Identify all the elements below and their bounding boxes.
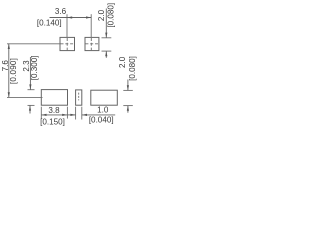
svg-text:2.0: 2.0 (118, 56, 127, 68)
dimension line A 7.6 left (8, 44, 10, 98)
centerline pad P2 horizontal (dashed) (85, 43, 98, 45)
centerline pad P1 vertical (dashed) (66, 38, 68, 50)
arrow 3.6 right (86, 16, 91, 18)
svg-text:[0.300]: [0.300] (30, 56, 39, 81)
svg-text:1.0: 1.0 (97, 106, 109, 115)
pad P3 (bottom-left wide land) (41, 90, 67, 106)
extension line pad P4 left down (75, 107, 77, 120)
dimension line B 2.3 upper segment (29, 57, 31, 90)
arrow 3.6 left (67, 16, 72, 18)
arrow 1.0 left (outside pointing right) (70, 114, 75, 116)
extension tick dim B top (28, 89, 35, 91)
arrow B up (outside below) (29, 105, 31, 110)
svg-text:[0.080]: [0.080] (128, 56, 137, 81)
arrow 2.0 down (105, 33, 107, 38)
arrow 1.0 right (outside pointing left) (82, 114, 87, 116)
extension tick dim B bottom (28, 104, 35, 106)
extension line left from pad P1 center (7, 43, 60, 45)
extension line right of pad P2 top (102, 37, 112, 39)
dimension line 3.8 bottom (41, 114, 67, 116)
svg-text:[0.150]: [0.150] (40, 117, 65, 126)
extension line pad P3 left down (40, 107, 42, 119)
centerline pad P2 vertical (dashed) (90, 38, 92, 50)
centerline pad P4 vertical dash (78, 93, 80, 101)
arrow right dim up (127, 106, 129, 111)
pad P1 (top-left land) (60, 37, 75, 50)
arrow 3.8 left (41, 114, 46, 116)
svg-text:3.6: 3.6 (55, 7, 67, 16)
extension line pad P3 right down (66, 107, 68, 119)
pad P5 (bottom-right wide land) (91, 90, 118, 105)
dimension line right 2.0 upper (127, 80, 129, 91)
extension line pad P4 right down (81, 107, 83, 120)
svg-text:[0.040]: [0.040] (89, 116, 114, 125)
centerline pad P1 horizontal (dashed) (61, 43, 75, 45)
arrow A top (8, 44, 10, 49)
dimension line 1.0 right segment with stub (82, 114, 115, 116)
svg-text:[0.090]: [0.090] (9, 58, 18, 84)
arrow A bottom (8, 92, 10, 97)
dimension line 2.0 top-right lower stub (105, 51, 107, 58)
svg-text:[0.080]: [0.080] (106, 3, 115, 28)
extension line right of pad P2 bottom (102, 50, 112, 52)
svg-text:2.0: 2.0 (97, 9, 106, 21)
arrow B down (outside above) (29, 84, 31, 89)
extension line left from bottom row center (7, 96, 43, 98)
svg-text:[0.140]: [0.140] (37, 19, 62, 28)
extension tick right dim top (123, 89, 133, 91)
extension line pad P2 center up (90, 14, 92, 37)
arrow right dim down (127, 85, 129, 90)
svg-text:3.8: 3.8 (48, 106, 60, 115)
dimension line right 2.0 lower stub (127, 106, 129, 113)
pad P4 (bottom narrow land) (76, 90, 82, 105)
dimension line B lower stub (29, 105, 31, 113)
arrow 3.8 right (62, 114, 67, 116)
extension line pad P1 center up (66, 14, 68, 37)
dimension line 1.0 left segment (67, 114, 75, 116)
dimension line 2.0 top-right upper (105, 9, 107, 38)
dimension line 3.6 top (50, 17, 92, 19)
extension tick right dim bottom (123, 105, 133, 107)
arrow 2.0 up (105, 51, 107, 56)
background (0, 0, 140, 129)
pad P2 (top-right land) (85, 37, 99, 50)
